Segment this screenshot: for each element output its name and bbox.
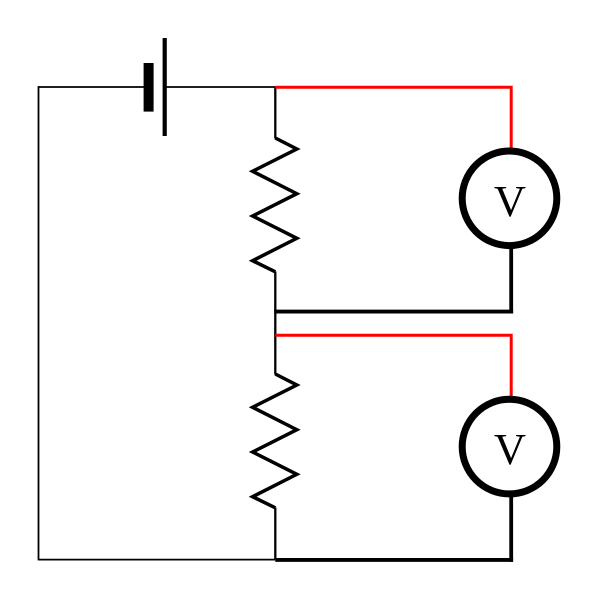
svg-text:V: V xyxy=(494,176,526,226)
wire: thick bottom wire from bottom node to voltmeter V2 xyxy=(275,558,513,562)
wire: bottom left segment xyxy=(39,559,276,561)
wire: middle branch lower segment (R2 to bottom node) xyxy=(274,508,276,560)
resistor R1 xyxy=(253,138,297,272)
wire: red lead from top node to voltmeter V1 positive terminal xyxy=(275,87,511,149)
wire: left rail xyxy=(38,86,40,560)
wire: thick junction wire from middle node to voltmeter V1 xyxy=(274,310,513,314)
wire: top left segment from left rail to battery xyxy=(39,86,147,88)
resistor R2 xyxy=(253,374,297,508)
voltmeter V1 xyxy=(462,151,557,246)
wire: battery to top node xyxy=(165,86,275,88)
wire: middle branch upper segment (top node to R1) xyxy=(274,87,276,139)
voltmeter V2 xyxy=(462,399,557,494)
wire: voltmeter V1 negative lead (circle bottom to mid junction) xyxy=(509,248,513,314)
wire: voltmeter V2 negative lead (circle bottom to bottom wire) xyxy=(509,496,513,562)
wire: red lead from middle node to voltmeter V2 positive terminal xyxy=(275,335,511,396)
battery B1 xyxy=(144,38,167,136)
svg-text:V: V xyxy=(494,424,526,474)
wire: middle branch between resistors xyxy=(274,272,276,375)
